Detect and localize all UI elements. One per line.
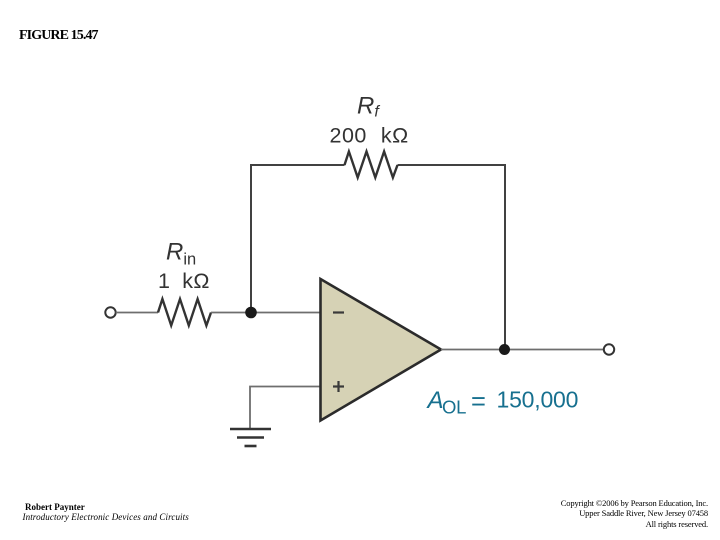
input terminal (open circle) xyxy=(105,307,115,317)
gain label AOL = 150,000 xyxy=(426,387,579,418)
svg-text:=: = xyxy=(471,388,486,416)
svg-text:1 kΩ: 1 kΩ xyxy=(158,269,210,293)
wire: non-inverting input xyxy=(250,387,321,429)
node: output junction dot xyxy=(499,344,510,355)
wire: Rin to inverting input xyxy=(211,312,321,314)
footer author xyxy=(25,502,189,523)
svg-text:A: A xyxy=(426,387,444,414)
footer copyright xyxy=(561,498,708,529)
op-amp minus pin label xyxy=(333,311,344,313)
wire: feedback top-left segment xyxy=(251,165,345,313)
ground xyxy=(230,429,271,446)
svg-text:Rf: Rf xyxy=(357,93,380,121)
op-amp plus pin label xyxy=(333,381,344,392)
resistor Rf xyxy=(345,152,398,178)
node: junction dot at inverting input xyxy=(245,307,257,319)
op-amp U1 xyxy=(321,279,442,421)
figure title xyxy=(19,28,98,44)
svg-text:OL: OL xyxy=(442,397,466,418)
wire: output xyxy=(441,349,604,351)
wire: input to Rin xyxy=(116,312,158,314)
output terminal (open circle) xyxy=(604,344,614,354)
resistor Rin xyxy=(158,299,211,326)
svg-text:Rin: Rin xyxy=(166,239,196,269)
svg-text:200 kΩ: 200 kΩ xyxy=(330,124,409,148)
wire: feedback top-right segment xyxy=(398,165,506,350)
svg-text:150,000: 150,000 xyxy=(497,387,579,413)
